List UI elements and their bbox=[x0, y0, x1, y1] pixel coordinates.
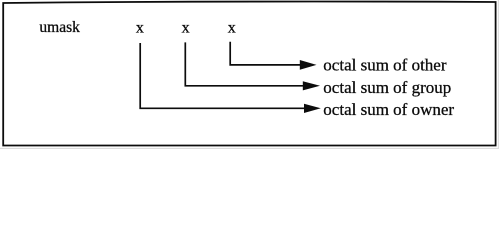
svg-text:x: x bbox=[136, 20, 144, 37]
arrowhead group bbox=[303, 81, 320, 90]
svg-text:octal sum of other: octal sum of other bbox=[323, 55, 447, 74]
svg-text:octal sum of owner: octal sum of owner bbox=[323, 100, 454, 119]
svg-text:x: x bbox=[228, 20, 236, 37]
wire from group x down and right bbox=[185, 42, 303, 85]
wire from owner x down and right bbox=[140, 43, 305, 108]
svg-text:octal sum of group: octal sum of group bbox=[323, 78, 451, 97]
arrowhead other bbox=[300, 60, 317, 70]
wire from other x down and right bbox=[230, 42, 301, 65]
svg-text:umask: umask bbox=[39, 19, 80, 36]
arrowhead owner bbox=[304, 104, 321, 113]
svg-text:x: x bbox=[182, 20, 190, 37]
